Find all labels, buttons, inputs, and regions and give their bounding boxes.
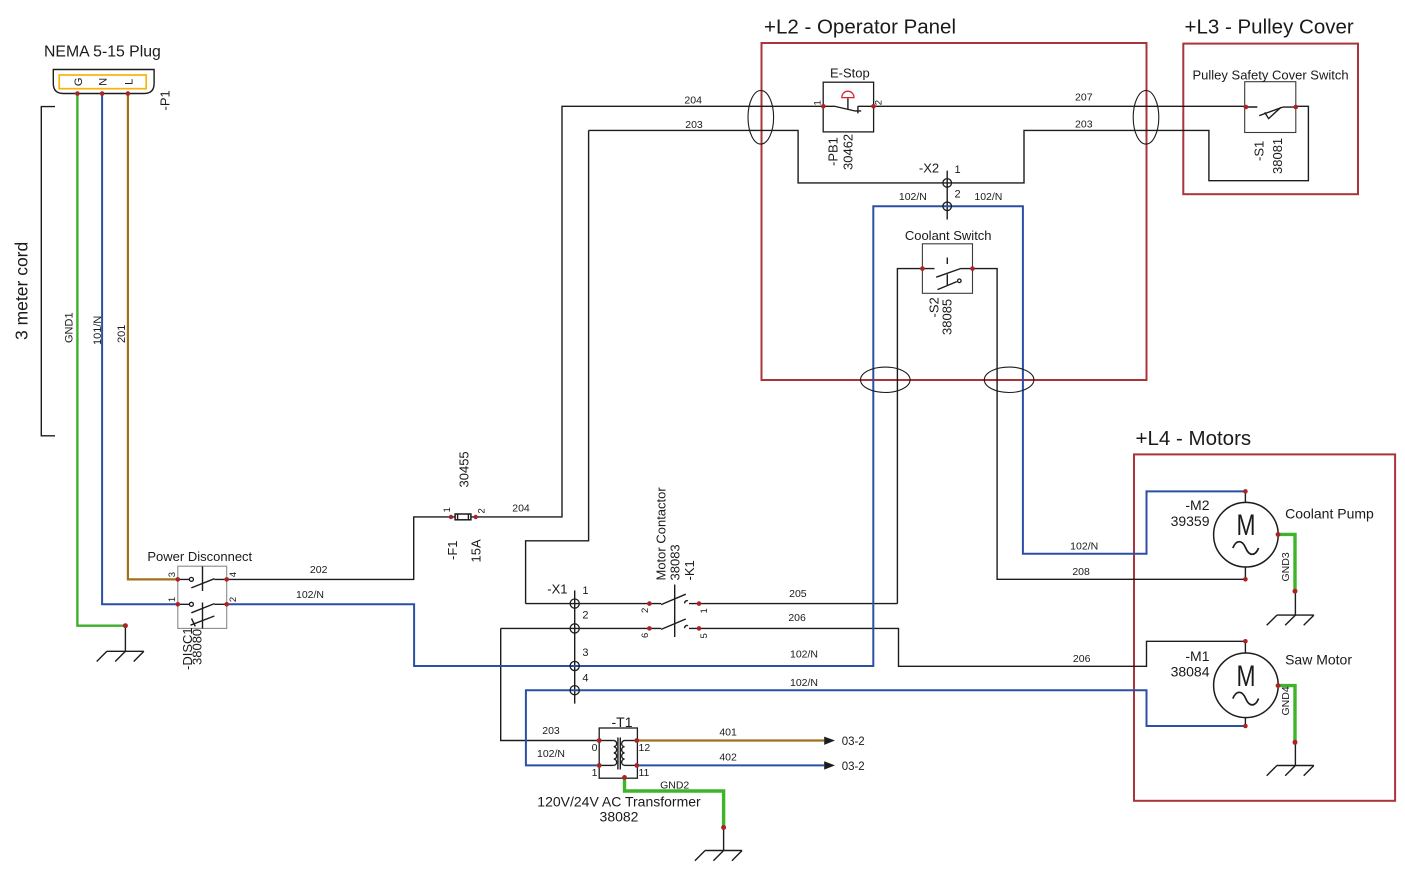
- svg-text:2: 2: [874, 100, 885, 105]
- svg-text:15A: 15A: [469, 539, 484, 562]
- svg-text:NEMA 5-15 Plug: NEMA 5-15 Plug: [44, 44, 161, 61]
- svg-text:E-Stop: E-Stop: [830, 66, 870, 81]
- svg-text:38080: 38080: [190, 629, 205, 665]
- svg-text:-P1: -P1: [158, 90, 173, 110]
- svg-text:G: G: [73, 78, 85, 87]
- svg-text:-X2: -X2: [919, 161, 939, 176]
- svg-text:3: 3: [167, 572, 178, 577]
- svg-text:102/N: 102/N: [537, 748, 565, 760]
- svg-text:39359: 39359: [1171, 513, 1210, 529]
- svg-text:-K1: -K1: [682, 560, 697, 580]
- svg-text:M: M: [1237, 660, 1256, 693]
- svg-text:N: N: [98, 78, 110, 86]
- svg-text:-M2: -M2: [1185, 497, 1209, 513]
- svg-text:38084: 38084: [1171, 664, 1210, 680]
- svg-text:5: 5: [699, 633, 710, 638]
- svg-text:30462: 30462: [841, 134, 856, 170]
- svg-text:6: 6: [640, 633, 651, 638]
- svg-text:207: 207: [1075, 92, 1093, 104]
- svg-text:102/N: 102/N: [974, 191, 1002, 203]
- svg-text:GND1: GND1: [64, 312, 76, 343]
- svg-text:204: 204: [684, 95, 702, 107]
- svg-text:101/N: 101/N: [92, 316, 104, 345]
- svg-text:102/N: 102/N: [790, 649, 818, 661]
- svg-text:2: 2: [582, 610, 588, 622]
- svg-text:38085: 38085: [940, 299, 955, 335]
- svg-text:402: 402: [719, 752, 737, 764]
- svg-text:GND3: GND3: [1280, 552, 1292, 581]
- svg-text:Pulley Safety Cover Switch: Pulley Safety Cover Switch: [1193, 68, 1349, 83]
- svg-text:-X1: -X1: [547, 582, 567, 597]
- svg-text:0: 0: [592, 742, 598, 754]
- svg-text:1: 1: [582, 585, 588, 597]
- svg-text:102/N: 102/N: [296, 589, 324, 601]
- svg-text:Coolant Switch: Coolant Switch: [905, 228, 992, 243]
- svg-text:GND4: GND4: [1280, 686, 1292, 715]
- svg-text:-T1: -T1: [612, 714, 633, 730]
- svg-text:203: 203: [1075, 119, 1093, 131]
- svg-text:38082: 38082: [600, 809, 639, 825]
- svg-text:206: 206: [1073, 653, 1091, 665]
- svg-text:Power Disconnect: Power Disconnect: [147, 549, 252, 564]
- svg-text:4: 4: [582, 673, 588, 685]
- svg-text:401: 401: [719, 727, 737, 739]
- svg-text:208: 208: [1072, 566, 1090, 578]
- svg-text:120V/24V AC Transformer: 120V/24V AC Transformer: [537, 794, 701, 810]
- svg-text:1: 1: [699, 608, 710, 613]
- svg-text:1: 1: [167, 597, 178, 602]
- svg-text:GND2: GND2: [660, 780, 689, 792]
- svg-text:203: 203: [542, 725, 560, 737]
- svg-text:-S1: -S1: [1252, 141, 1267, 161]
- svg-text:2: 2: [476, 508, 487, 513]
- svg-text:205: 205: [789, 588, 807, 600]
- svg-text:-F1: -F1: [445, 541, 460, 561]
- svg-text:2: 2: [228, 597, 239, 602]
- svg-text:03-2: 03-2: [842, 736, 865, 748]
- svg-text:12: 12: [639, 742, 651, 754]
- svg-text:3: 3: [582, 647, 588, 659]
- svg-text:M: M: [1237, 509, 1256, 542]
- svg-text:2: 2: [955, 189, 961, 201]
- svg-text:Motor Contactor: Motor Contactor: [654, 487, 669, 581]
- svg-text:202: 202: [310, 564, 328, 576]
- svg-text:4: 4: [228, 572, 239, 577]
- svg-text:206: 206: [788, 612, 806, 624]
- svg-text:102/N: 102/N: [790, 677, 818, 689]
- svg-text:-PB1: -PB1: [826, 137, 841, 166]
- svg-text:203: 203: [685, 119, 703, 131]
- svg-text:201: 201: [116, 325, 128, 343]
- svg-text:Saw Motor: Saw Motor: [1285, 652, 1352, 668]
- svg-text:3 meter cord: 3 meter cord: [12, 242, 32, 340]
- svg-text:1: 1: [812, 100, 823, 105]
- svg-text:+L3 - Pulley Cover: +L3 - Pulley Cover: [1185, 16, 1354, 39]
- svg-text:L: L: [123, 79, 135, 85]
- svg-text:11: 11: [639, 767, 650, 779]
- svg-text:1: 1: [592, 767, 598, 779]
- svg-text:Coolant Pump: Coolant Pump: [1285, 506, 1374, 522]
- svg-text:204: 204: [512, 503, 530, 515]
- svg-text:1: 1: [955, 164, 961, 176]
- svg-text:03-2: 03-2: [842, 761, 865, 773]
- svg-text:1: 1: [442, 507, 453, 512]
- svg-text:-M1: -M1: [1185, 648, 1209, 664]
- svg-text:+L2 - Operator Panel: +L2 - Operator Panel: [764, 16, 956, 39]
- svg-text:38083: 38083: [667, 544, 682, 580]
- svg-text:102/N: 102/N: [899, 191, 927, 203]
- svg-text:30455: 30455: [457, 451, 472, 487]
- svg-text:2: 2: [640, 608, 651, 613]
- svg-text:+L4 - Motors: +L4 - Motors: [1136, 427, 1252, 450]
- svg-text:38081: 38081: [1270, 138, 1285, 174]
- svg-text:102/N: 102/N: [1070, 541, 1098, 553]
